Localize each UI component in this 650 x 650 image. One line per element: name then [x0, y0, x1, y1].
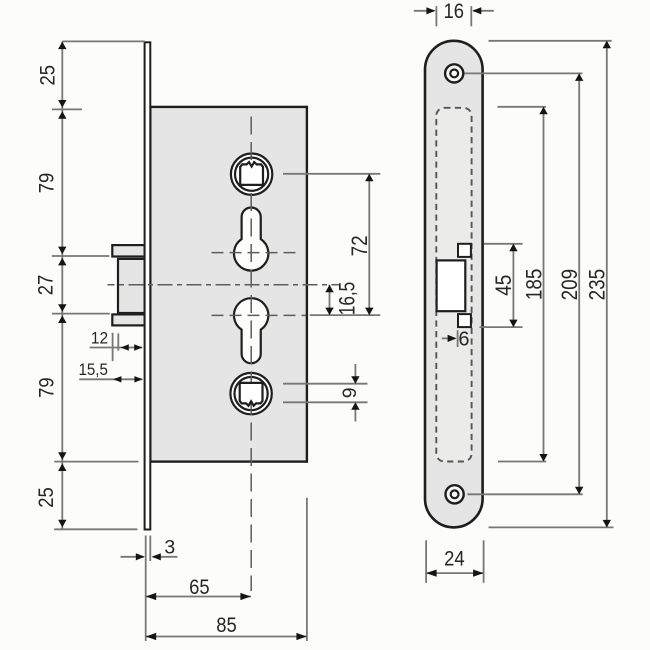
upper keyhole centerline dashed	[212, 252, 301, 254]
latch bolt body	[118, 259, 145, 313]
extension line lower keyhole center right	[310, 314, 381, 316]
top screw hole outer	[445, 64, 463, 82]
top screw hole inner	[450, 70, 458, 78]
main latch opening	[437, 260, 466, 311]
lower latch square opening	[458, 314, 471, 327]
dimension 12 extension tick tall	[112, 333, 114, 361]
extension line top screw center	[465, 72, 583, 74]
upper spindle hole outer circle	[231, 154, 272, 195]
label 6	[458, 328, 469, 350]
label 65	[189, 576, 210, 599]
label 72	[347, 235, 372, 256]
dimension 12 line and arrows	[90, 344, 143, 350]
svg-text:25: 25	[35, 487, 58, 508]
extension line plate top	[489, 40, 612, 42]
lower spindle square follower	[240, 383, 263, 406]
label 45	[491, 275, 516, 296]
dimension 65	[146, 593, 251, 600]
dimension 209	[575, 73, 583, 494]
svg-text:24: 24	[444, 548, 465, 571]
label 25 bottom	[35, 487, 58, 508]
upper euro keyhole cutout	[234, 208, 268, 271]
label 16,5	[335, 282, 360, 316]
svg-text:209: 209	[557, 269, 582, 301]
forend faceplate bar	[145, 42, 151, 529]
lower keyhole centerline dashed	[212, 314, 307, 316]
svg-text:25: 25	[37, 65, 60, 86]
svg-text:79: 79	[36, 173, 59, 194]
lower spindle hole outer circle	[230, 373, 271, 414]
extension tick bolt bottom	[52, 313, 110, 315]
dimension 16 arrows	[414, 7, 494, 14]
dimension 45	[509, 244, 517, 327]
latch bolt bottom flange	[112, 314, 144, 325]
label 15,5	[78, 361, 108, 379]
extension line faceplate bottom	[54, 528, 137, 530]
extension line plate bottom	[489, 526, 614, 528]
svg-text:45: 45	[491, 275, 516, 296]
dimension 16 ticks	[436, 6, 471, 26]
extension tick bolt top	[52, 255, 109, 257]
dimension 3 extension tick short	[149, 536, 151, 562]
svg-text:16: 16	[444, 0, 465, 23]
body horizontal centerline	[108, 284, 339, 286]
label 85	[216, 614, 237, 637]
label 79 top	[36, 173, 59, 194]
dimension 6 extension tick	[457, 330, 459, 347]
extension line body bottom	[54, 461, 138, 463]
extension line spindle center right	[283, 173, 380, 175]
upper spindle hole inner circle	[235, 158, 268, 191]
label 24	[444, 548, 465, 571]
svg-text:27: 27	[35, 275, 58, 296]
dimension 3 arrows	[121, 553, 178, 560]
extension line bottom screw center	[467, 493, 582, 495]
lock body case	[150, 107, 307, 462]
label 9	[339, 387, 361, 398]
dimension 235	[603, 41, 611, 528]
label 235	[585, 269, 610, 301]
dimension 25 top extension line at faceplate top	[62, 40, 145, 42]
strike faceplate rounded plate	[425, 41, 483, 528]
label 25 top	[37, 65, 60, 86]
extension line dashed rect bottom	[498, 461, 546, 463]
label 209	[557, 269, 582, 301]
svg-text:9: 9	[339, 387, 361, 398]
label 3	[164, 537, 175, 559]
bottom screw hole inner	[451, 490, 459, 498]
dashed recess rect	[436, 108, 471, 462]
extension tick body top	[52, 108, 82, 110]
bottom screw hole outer	[446, 485, 464, 503]
extension line dashed rect top	[498, 106, 547, 108]
latch bolt top flange	[112, 245, 144, 256]
svg-text:6: 6	[458, 328, 469, 350]
dimension 6 arrow	[442, 335, 457, 342]
extension line left of 65 85	[145, 536, 147, 642]
dimension 15,5 line and arrows	[79, 376, 142, 382]
svg-text:12: 12	[91, 329, 108, 347]
extension line lower square bottom	[480, 326, 523, 328]
svg-text:72: 72	[347, 235, 372, 256]
dimension 85	[146, 633, 307, 640]
extension line square bottom for 9	[283, 401, 368, 403]
lower spindle hole inner circle	[235, 377, 268, 410]
svg-text:85: 85	[216, 614, 237, 637]
dimension 72	[365, 174, 373, 315]
dimension 24	[426, 570, 484, 577]
label 79 bottom	[36, 377, 59, 398]
extension line body right for 85	[306, 498, 308, 641]
extension line upper square top	[484, 243, 523, 245]
dimension 16,5	[325, 285, 333, 315]
svg-text:16,5: 16,5	[335, 282, 360, 316]
dimension 185	[539, 107, 547, 462]
label 27	[35, 275, 58, 296]
dimension 24 ticks	[426, 540, 484, 583]
lower euro keyhole cutout	[234, 298, 268, 363]
svg-text:185: 185	[521, 269, 546, 301]
arrowheads left column	[58, 42, 66, 528]
svg-text:15,5: 15,5	[78, 361, 108, 379]
svg-text:79: 79	[36, 377, 59, 398]
upper latch square opening	[458, 244, 471, 257]
upper spindle square follower	[240, 162, 263, 185]
label 16	[444, 0, 465, 23]
dimension 12 extension tick short	[117, 333, 119, 350]
label 12	[91, 329, 108, 347]
svg-text:235: 235	[585, 269, 610, 301]
vertical centerline	[250, 117, 252, 592]
dimension 9 arrows	[351, 364, 359, 422]
left dimension line column	[61, 41, 63, 529]
svg-text:3: 3	[164, 537, 175, 559]
extension line square top for 9	[283, 383, 368, 385]
label 185	[521, 269, 546, 301]
svg-text:65: 65	[189, 576, 210, 599]
